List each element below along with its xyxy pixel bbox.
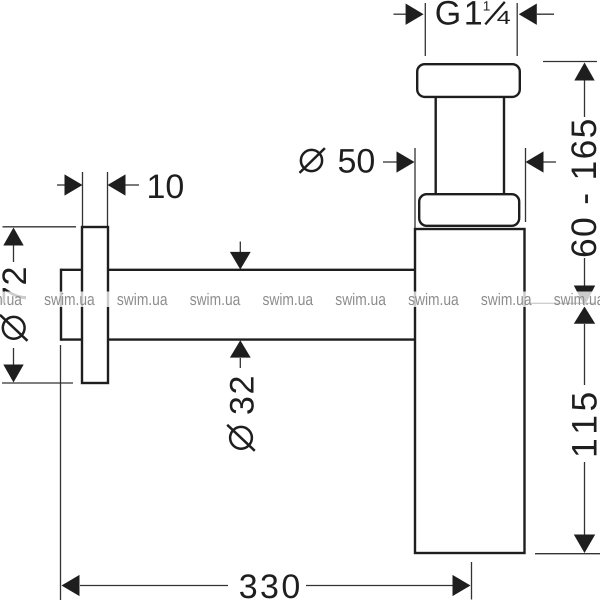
threaded tube bbox=[436, 97, 504, 194]
horizontal outlet pipe bbox=[108, 270, 415, 340]
svg-text:50: 50 bbox=[338, 143, 376, 181]
dimension O32 upper arrow bbox=[230, 242, 251, 270]
svg-text:swim.ua: swim.ua bbox=[190, 290, 241, 309]
dimension 10 left arrow bbox=[57, 174, 83, 195]
dimension label O72 bbox=[0, 266, 34, 341]
svg-text:swim.ua: swim.ua bbox=[117, 290, 168, 309]
dimension label O32 bbox=[223, 374, 261, 451]
watermark band bbox=[0, 292, 600, 308]
svg-text:60 - 165: 60 - 165 bbox=[564, 117, 600, 258]
wall-side pipe stub bbox=[61, 269, 82, 341]
dimension O72 up arrow bbox=[3, 228, 23, 263]
dimension O72 down arrow bbox=[3, 348, 23, 383]
dimension G 1 1/4 right arrow bbox=[519, 4, 554, 25]
svg-text:swim.ua: swim.ua bbox=[0, 290, 22, 309]
dimension O50 symbol bbox=[300, 148, 325, 173]
dimension O72 extension lines bbox=[2, 227, 76, 383]
svg-text:swim.ua: swim.ua bbox=[44, 290, 95, 309]
dimension O50 extension lines bbox=[415, 148, 526, 228]
dimension 330 right arrow bbox=[306, 575, 471, 596]
svg-text:115: 115 bbox=[565, 388, 600, 458]
lower nut bbox=[419, 194, 519, 226]
dimension G 1 1/4 left arrow bbox=[394, 4, 424, 25]
dimension 115 down arrow bbox=[574, 462, 595, 553]
dimension label 60-165 bbox=[564, 117, 600, 258]
dimension 330 right extension line bbox=[471, 562, 473, 600]
svg-text:swim.ua: swim.ua bbox=[263, 290, 314, 309]
dimension 115 up arrow bbox=[574, 307, 595, 386]
dimension label 115 bbox=[565, 388, 600, 458]
watermark text row bbox=[0, 290, 600, 309]
dimension 10 extension lines bbox=[83, 172, 108, 226]
dimension 115 bottom extension line bbox=[535, 553, 600, 555]
svg-text:swim.ua: swim.ua bbox=[335, 290, 386, 309]
svg-text:330: 330 bbox=[239, 568, 303, 600]
dimension 330 left arrow bbox=[62, 575, 229, 596]
dimension O50 right arrow bbox=[526, 151, 557, 172]
svg-text:G: G bbox=[435, 0, 461, 33]
dimension 60-165 up arrow bbox=[574, 63, 594, 118]
svg-text:1: 1 bbox=[483, 0, 491, 14]
dimension 330 left extension line bbox=[60, 345, 62, 600]
shared extension line at pipe axis bbox=[528, 302, 596, 304]
dimension G 1 1/4 extension lines bbox=[425, 3, 517, 56]
svg-text:swim.ua: swim.ua bbox=[408, 290, 459, 309]
svg-text:4: 4 bbox=[497, 8, 512, 29]
svg-text:swim.ua: swim.ua bbox=[481, 290, 532, 309]
wall flange bbox=[82, 227, 108, 383]
dimension 10 right arrow bbox=[108, 174, 140, 195]
dimension O50 left arrow bbox=[383, 151, 415, 172]
dimension 60-165 top extension line bbox=[543, 61, 597, 63]
top nut bbox=[417, 64, 520, 97]
dimension O32 lower arrow bbox=[230, 340, 251, 368]
svg-text:1: 1 bbox=[464, 0, 483, 33]
dimension 60-165 down arrow bbox=[574, 258, 595, 306]
svg-text:swim.ua: swim.ua bbox=[554, 290, 600, 309]
dimension label G 1 1/4 bbox=[435, 0, 512, 33]
svg-text:10: 10 bbox=[147, 168, 185, 206]
trap body bbox=[415, 229, 525, 553]
svg-text:32: 32 bbox=[223, 374, 261, 415]
